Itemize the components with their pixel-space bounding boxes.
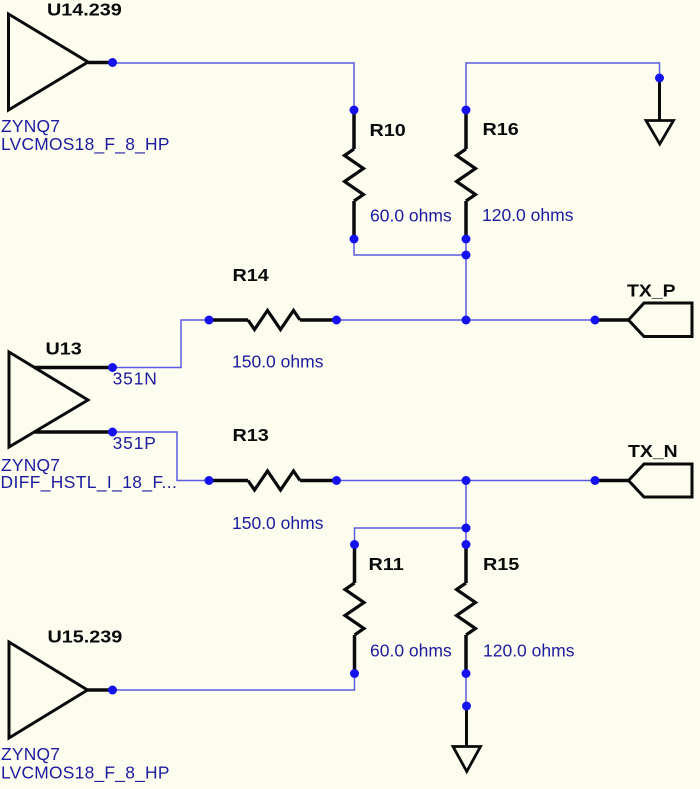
diff driver U13 <box>9 352 113 447</box>
node TX_N port <box>591 476 600 485</box>
node junction 255 <box>462 251 471 260</box>
svg-text:LVCMOS18_F_8_HP: LVCMOS18_F_8_HP <box>1 763 170 783</box>
node R14 left <box>205 316 214 325</box>
svg-text:R14: R14 <box>233 266 270 286</box>
node R13 left <box>205 476 214 485</box>
resistor R10 <box>345 110 364 239</box>
svg-text:60.0 ohms: 60.0 ohms <box>370 641 452 661</box>
wire 351P to R13 left <box>113 432 209 481</box>
wire TX_N net down to junction <box>465 481 467 545</box>
svg-text:TX_P: TX_P <box>627 280 676 300</box>
wire R10 bottom to junction <box>354 239 466 255</box>
node TX_P junction <box>462 316 471 325</box>
node U14 out <box>108 58 117 67</box>
node gnd top <box>655 74 664 83</box>
node R11 top <box>350 540 359 549</box>
svg-text:U14.239: U14.239 <box>47 0 122 20</box>
svg-text:120.0 ohms: 120.0 ohms <box>483 641 575 661</box>
wire U14 out to R10 top <box>113 63 354 110</box>
resistor R14 <box>209 311 337 330</box>
svg-text:DIFF_HSTL_I_18_F...: DIFF_HSTL_I_18_F... <box>1 472 178 492</box>
svg-text:TX_N: TX_N <box>628 441 678 461</box>
ground (top right) <box>646 80 674 144</box>
node R13 right <box>332 476 341 485</box>
node junction 528 <box>462 524 471 533</box>
svg-text:ZYNQ7: ZYNQ7 <box>1 116 60 136</box>
resistor R11 <box>345 545 364 674</box>
node TX_N junction <box>462 476 471 485</box>
svg-text:R13: R13 <box>233 426 269 446</box>
svg-text:R11: R11 <box>369 555 404 575</box>
ground (bottom) <box>453 706 481 772</box>
resistor R16 <box>457 110 476 239</box>
buffer U14 <box>9 14 114 110</box>
port TX_N <box>595 464 692 497</box>
svg-text:U13: U13 <box>46 339 82 359</box>
wire TX_P horizontal <box>337 319 596 321</box>
svg-text:R15: R15 <box>483 555 519 575</box>
node R16 bottom <box>462 235 471 244</box>
node R14 right <box>332 316 341 325</box>
wire R11 bottom to U15 out <box>113 674 355 691</box>
svg-text:R10: R10 <box>370 121 406 141</box>
node gnd bottom <box>462 702 471 711</box>
svg-text:R16: R16 <box>483 120 519 140</box>
node R15 bottom <box>462 669 471 678</box>
node R10 bottom <box>350 235 359 244</box>
svg-text:ZYNQ7: ZYNQ7 <box>1 744 60 764</box>
node R11 bottom <box>350 669 359 678</box>
node R15 top <box>462 540 471 549</box>
svg-text:150.0 ohms: 150.0 ohms <box>232 352 324 372</box>
port TX_P <box>595 303 692 337</box>
resistor R15 <box>457 545 476 674</box>
svg-text:LVCMOS18_F_8_HP: LVCMOS18_F_8_HP <box>1 134 170 154</box>
node 351P <box>108 428 117 437</box>
wire R15 bottom to gnd <box>465 674 467 707</box>
svg-text:60.0 ohms: 60.0 ohms <box>370 206 452 226</box>
svg-text:351N: 351N <box>113 369 158 389</box>
svg-text:351P: 351P <box>113 433 157 453</box>
buffer U15 <box>9 642 113 738</box>
node U15 out <box>108 686 117 695</box>
svg-text:U15.239: U15.239 <box>48 627 123 647</box>
wire R16 bottom down to TX_P net <box>465 239 467 320</box>
svg-text:120.0 ohms: 120.0 ohms <box>482 205 574 225</box>
svg-text:150.0 ohms: 150.0 ohms <box>232 513 324 533</box>
wire R14 left to 351N <box>113 320 209 368</box>
wire TX_N horizontal <box>337 480 596 482</box>
node R16 top <box>462 106 471 115</box>
node TX_P port <box>591 316 600 325</box>
wire R16 top to gnd <box>466 63 660 110</box>
wire junction left to R11 top <box>355 528 467 545</box>
node R10 top <box>350 106 359 115</box>
resistor R13 <box>209 471 337 490</box>
node 351N <box>108 363 117 372</box>
